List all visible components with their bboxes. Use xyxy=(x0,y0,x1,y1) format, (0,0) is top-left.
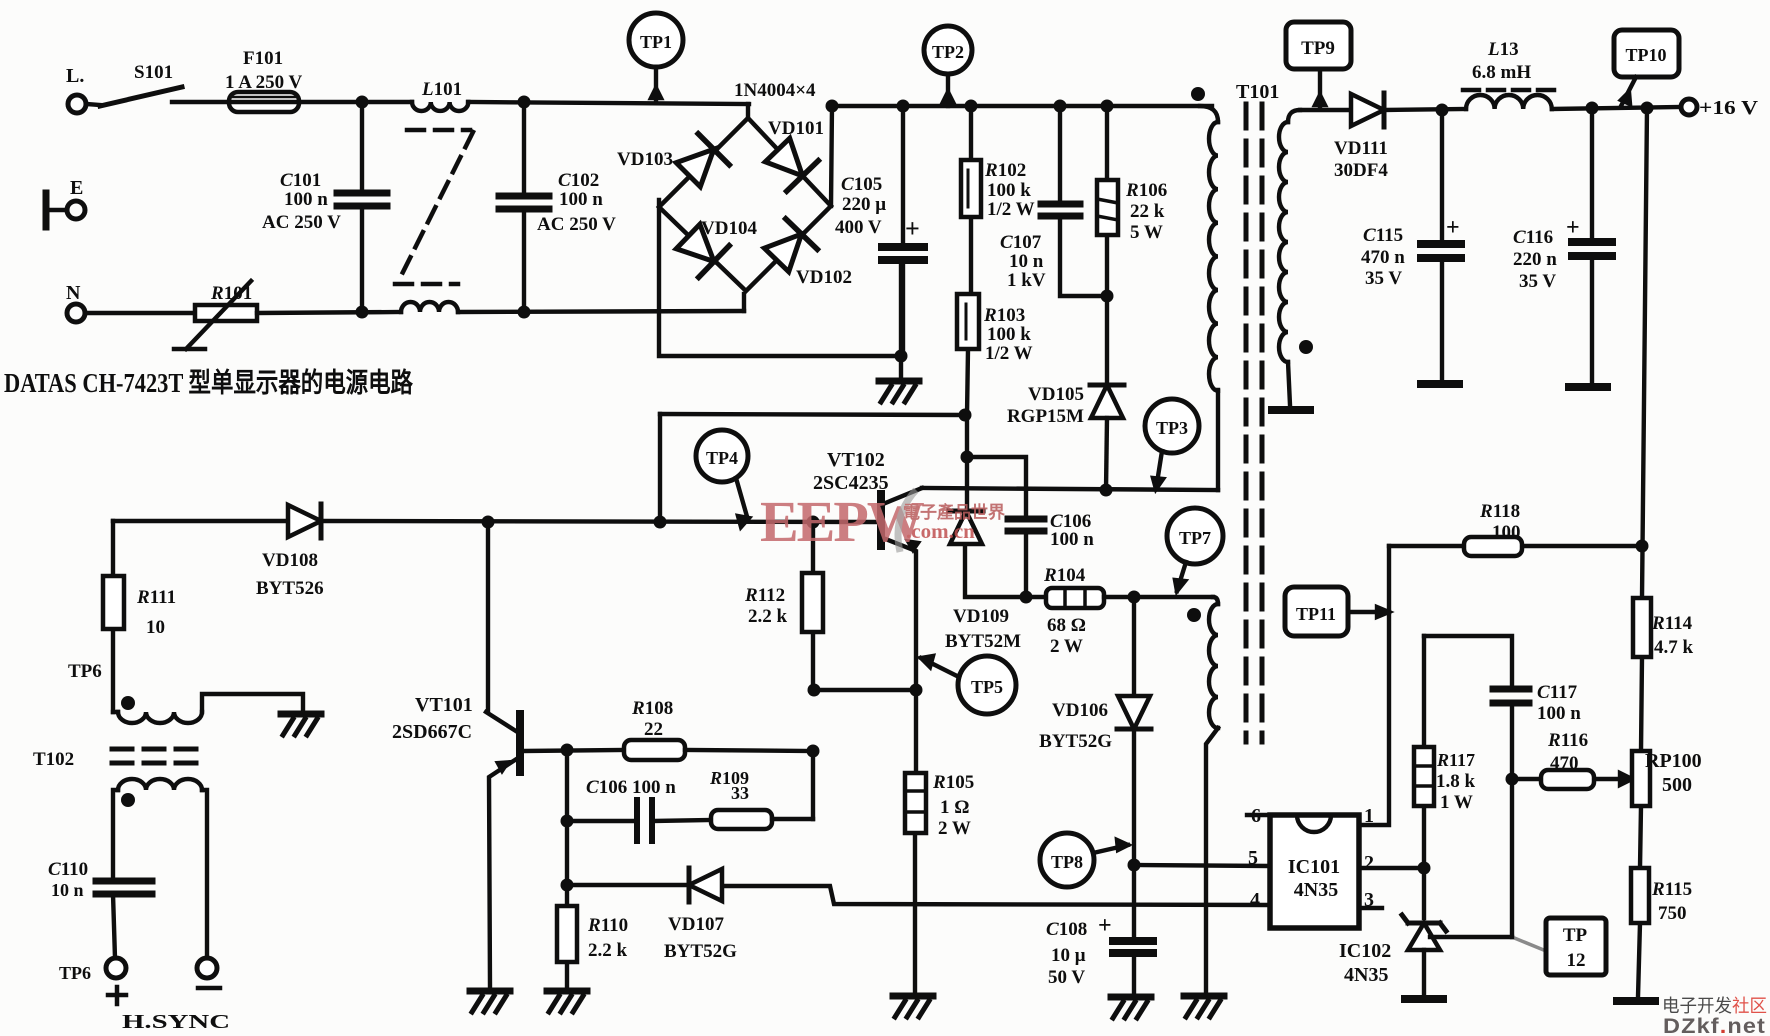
svg-text:TP6: TP6 xyxy=(59,963,91,983)
svg-text:2 W: 2 W xyxy=(1050,636,1083,657)
svg-text:1/2 W: 1/2 W xyxy=(987,199,1035,220)
svg-text:68 Ω: 68 Ω xyxy=(1047,615,1086,636)
svg-text:TP5: TP5 xyxy=(971,677,1003,697)
svg-text:RGP15M: RGP15M xyxy=(1007,406,1084,427)
svg-text:+: + xyxy=(1566,215,1580,241)
svg-text:2SD667C: 2SD667C xyxy=(392,721,472,743)
svg-text:10 n: 10 n xyxy=(1009,251,1044,272)
svg-text:1 kV: 1 kV xyxy=(1007,270,1046,291)
svg-text:TP3: TP3 xyxy=(1156,418,1188,438)
svg-text:R114: R114 xyxy=(1651,613,1693,634)
svg-text:TP4: TP4 xyxy=(706,448,738,468)
svg-text:R110: R110 xyxy=(587,915,628,936)
svg-text:C107: C107 xyxy=(1000,232,1042,253)
svg-text:S101: S101 xyxy=(134,62,173,83)
svg-text:VD108: VD108 xyxy=(262,550,318,571)
svg-text:TP7: TP7 xyxy=(1179,528,1211,548)
svg-text:400 V: 400 V xyxy=(835,217,882,238)
svg-text:R112: R112 xyxy=(744,585,785,606)
svg-text:L.: L. xyxy=(66,65,84,87)
svg-text:R108: R108 xyxy=(631,698,673,719)
svg-text:C116: C116 xyxy=(1513,227,1553,248)
svg-text:30DF4: 30DF4 xyxy=(1334,160,1388,181)
svg-text:R115: R115 xyxy=(1651,879,1692,900)
svg-text:R116: R116 xyxy=(1547,730,1588,751)
svg-text:TP9: TP9 xyxy=(1301,38,1335,59)
svg-text:TP2: TP2 xyxy=(932,42,964,62)
svg-text:TP: TP xyxy=(1563,925,1588,946)
svg-text:IC101: IC101 xyxy=(1288,856,1340,878)
svg-text:100: 100 xyxy=(1492,522,1521,543)
svg-text:1N4004×4: 1N4004×4 xyxy=(734,80,816,101)
svg-text:DZkf.net: DZkf.net xyxy=(1663,1015,1766,1036)
svg-text:220 n: 220 n xyxy=(1513,249,1557,270)
svg-text:VT102: VT102 xyxy=(827,449,885,471)
svg-text:2.2 k: 2.2 k xyxy=(588,940,628,961)
svg-text:2.2 k: 2.2 k xyxy=(748,606,788,627)
svg-text:VD103: VD103 xyxy=(617,149,673,170)
svg-text:470: 470 xyxy=(1550,753,1579,774)
svg-text:C102: C102 xyxy=(558,170,599,191)
svg-text:R103: R103 xyxy=(983,305,1025,326)
svg-text:1 Ω: 1 Ω xyxy=(940,797,969,818)
svg-text:100 n: 100 n xyxy=(559,189,603,210)
svg-text:R111: R111 xyxy=(136,587,176,608)
svg-text:12: 12 xyxy=(1567,950,1586,971)
svg-text:+: + xyxy=(1446,215,1460,241)
svg-text:RP100: RP100 xyxy=(1645,750,1702,772)
svg-text:4.7 k: 4.7 k xyxy=(1654,637,1694,658)
svg-text:1: 1 xyxy=(1364,805,1374,827)
svg-text:T102: T102 xyxy=(33,749,74,770)
svg-text:R102: R102 xyxy=(984,160,1026,181)
svg-text:R117: R117 xyxy=(1436,750,1475,770)
svg-text:C101: C101 xyxy=(280,170,321,191)
svg-text:VD107: VD107 xyxy=(668,914,724,935)
svg-text:VD105: VD105 xyxy=(1028,384,1084,405)
svg-text:E: E xyxy=(70,177,83,199)
svg-text:10: 10 xyxy=(146,617,165,638)
svg-text:TP8: TP8 xyxy=(1051,852,1083,872)
svg-text:C105: C105 xyxy=(841,174,882,195)
svg-text:1.8 k: 1.8 k xyxy=(1436,771,1476,792)
svg-text:VD106: VD106 xyxy=(1052,700,1108,721)
svg-text:22 k: 22 k xyxy=(1130,201,1165,222)
svg-text:4: 4 xyxy=(1250,889,1260,911)
svg-text:R101: R101 xyxy=(210,283,252,304)
svg-text:VD101: VD101 xyxy=(768,118,824,139)
svg-text:TP6: TP6 xyxy=(68,661,102,682)
svg-text:C106 100 n: C106 100 n xyxy=(586,777,676,798)
svg-text:.com.cn: .com.cn xyxy=(906,519,975,543)
svg-text:+: + xyxy=(1098,913,1112,939)
svg-text:1 W: 1 W xyxy=(1440,792,1473,813)
svg-text:C115: C115 xyxy=(1363,225,1403,246)
svg-text:电子开发社区: 电子开发社区 xyxy=(1662,996,1767,1016)
svg-text:VD111: VD111 xyxy=(1334,138,1388,159)
svg-text:BYT52G: BYT52G xyxy=(1039,731,1112,752)
svg-text:R118: R118 xyxy=(1479,501,1520,522)
svg-text:100 k: 100 k xyxy=(987,180,1031,201)
svg-text:+: + xyxy=(905,214,920,243)
svg-text:35 V: 35 V xyxy=(1365,268,1402,289)
svg-text:BYT52M: BYT52M xyxy=(945,631,1021,652)
svg-text:5 W: 5 W xyxy=(1130,222,1163,243)
svg-text:C108: C108 xyxy=(1046,919,1087,940)
svg-text:BYT526: BYT526 xyxy=(256,578,324,599)
svg-text:AC 250 V: AC 250 V xyxy=(262,212,341,233)
svg-text:100 n: 100 n xyxy=(284,189,328,210)
svg-text:1/2 W: 1/2 W xyxy=(985,343,1033,364)
svg-text:N: N xyxy=(66,282,81,304)
svg-text:100 k: 100 k xyxy=(987,324,1031,345)
svg-text:R106: R106 xyxy=(1125,180,1167,201)
svg-text:10 μ: 10 μ xyxy=(1051,945,1086,966)
svg-text:H.SYNC: H.SYNC xyxy=(122,1011,230,1033)
svg-text:100 n: 100 n xyxy=(1537,703,1581,724)
svg-text:22: 22 xyxy=(644,719,663,740)
svg-text:L13: L13 xyxy=(1487,39,1519,60)
svg-text:750: 750 xyxy=(1658,903,1687,924)
svg-text:4N35: 4N35 xyxy=(1344,964,1388,986)
svg-text:2: 2 xyxy=(1364,852,1374,874)
svg-text:33: 33 xyxy=(731,783,749,803)
svg-text:500: 500 xyxy=(1662,774,1692,796)
svg-text:DATAS CH-7423T 型单显示器的电源电路: DATAS CH-7423T 型单显示器的电源电路 xyxy=(4,367,414,398)
svg-text:+16 V: +16 V xyxy=(1699,97,1759,119)
svg-text:50 V: 50 V xyxy=(1048,967,1085,988)
svg-text:TP11: TP11 xyxy=(1296,604,1336,624)
svg-text:L101: L101 xyxy=(421,79,462,100)
svg-text:3: 3 xyxy=(1364,889,1374,911)
svg-text:6: 6 xyxy=(1251,805,1261,827)
svg-text:4N35: 4N35 xyxy=(1294,879,1338,901)
svg-text:C110: C110 xyxy=(48,859,88,880)
svg-text:100 n: 100 n xyxy=(1050,529,1094,550)
svg-text:IC102: IC102 xyxy=(1339,940,1391,962)
svg-text:BYT52G: BYT52G xyxy=(664,941,737,962)
svg-text:VD104: VD104 xyxy=(701,218,757,239)
svg-text:1 A 250 V: 1 A 250 V xyxy=(225,72,303,93)
svg-text:6.8 mH: 6.8 mH xyxy=(1472,62,1531,83)
svg-text:C117: C117 xyxy=(1537,682,1578,703)
svg-text:T101: T101 xyxy=(1236,81,1279,103)
svg-text:VD109: VD109 xyxy=(953,606,1009,627)
svg-text:TP1: TP1 xyxy=(640,32,672,52)
svg-text:VD102: VD102 xyxy=(796,267,852,288)
svg-text:R105: R105 xyxy=(932,772,974,793)
svg-text:VT101: VT101 xyxy=(415,694,473,716)
svg-text:TP10: TP10 xyxy=(1625,45,1666,65)
svg-text:2 W: 2 W xyxy=(938,818,971,839)
svg-text:5: 5 xyxy=(1248,847,1258,869)
svg-text:AC 250 V: AC 250 V xyxy=(537,214,616,235)
svg-text:10 n: 10 n xyxy=(51,880,84,900)
svg-text:F101: F101 xyxy=(243,48,283,69)
svg-text:220 μ: 220 μ xyxy=(842,194,886,215)
svg-text:35 V: 35 V xyxy=(1519,271,1556,292)
svg-text:R104: R104 xyxy=(1043,565,1086,586)
svg-text:470 n: 470 n xyxy=(1361,247,1405,268)
